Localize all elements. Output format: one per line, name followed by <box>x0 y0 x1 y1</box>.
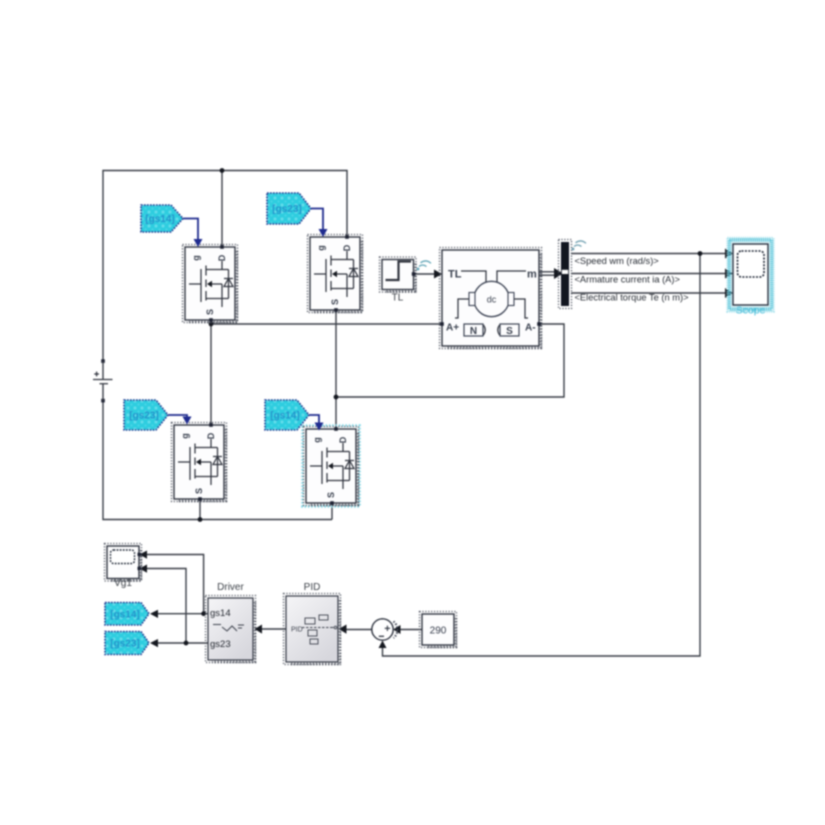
svg-text:290: 290 <box>430 626 447 637</box>
svg-text:gs23: gs23 <box>210 639 231 650</box>
svg-text:D: D <box>338 436 348 443</box>
svg-text:<Speed wm (rad/s)>: <Speed wm (rad/s)> <box>575 256 659 266</box>
svg-text:m: m <box>527 269 537 281</box>
svg-text:N: N <box>470 326 477 337</box>
svg-text:TL: TL <box>448 269 462 281</box>
svg-text:S: S <box>205 309 215 315</box>
svg-text:PID: PID <box>304 582 321 593</box>
svg-text:S: S <box>506 326 513 337</box>
svg-text:<Armature current ia (A)>: <Armature current ia (A)> <box>575 274 680 284</box>
svg-text:[gs14]: [gs14] <box>145 214 174 225</box>
svg-text:S: S <box>330 299 340 305</box>
svg-text:[gs14]: [gs14] <box>270 411 299 422</box>
svg-text:D: D <box>342 244 352 251</box>
svg-text:g: g <box>316 245 326 251</box>
svg-text:g: g <box>191 255 201 261</box>
svg-text:PID: PID <box>291 627 303 634</box>
svg-text:g: g <box>180 433 190 439</box>
svg-text:S: S <box>194 488 204 494</box>
svg-text:g: g <box>312 437 322 443</box>
svg-text:Scope: Scope <box>736 305 766 317</box>
svg-text:dc: dc <box>487 295 497 305</box>
svg-text:S: S <box>326 492 336 498</box>
svg-text:[gs14]: [gs14] <box>110 609 139 620</box>
svg-text:TL: TL <box>392 293 404 304</box>
svg-text:[gs23]: [gs23] <box>129 411 158 422</box>
svg-text:gs14: gs14 <box>210 608 231 619</box>
svg-text:[gs23]: [gs23] <box>272 204 301 215</box>
svg-text:[gs23]: [gs23] <box>110 639 139 650</box>
svg-text:Driver: Driver <box>217 582 244 593</box>
svg-text:A+: A+ <box>446 323 459 334</box>
svg-text:D: D <box>206 432 216 439</box>
svg-text:A-: A- <box>525 323 536 334</box>
svg-text:D: D <box>217 254 227 261</box>
svg-text:<Electrical torque Te (n m)>: <Electrical torque Te (n m)> <box>575 293 689 303</box>
svg-text:Vg1: Vg1 <box>114 578 132 589</box>
